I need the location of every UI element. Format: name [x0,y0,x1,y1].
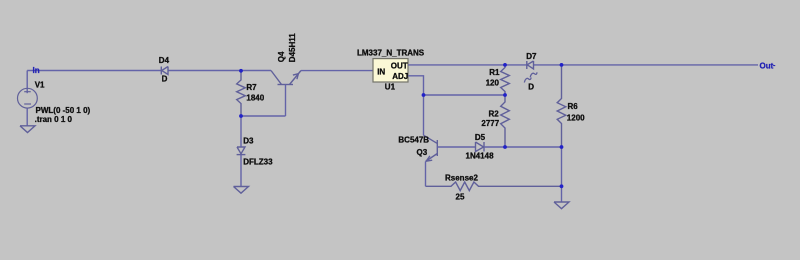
svg-text:PWL(0 -50 1 0): PWL(0 -50 1 0) [36,106,91,115]
svg-text:1N4148: 1N4148 [466,152,495,161]
svg-text:D: D [528,83,534,92]
svg-text:R1: R1 [489,68,500,77]
svg-text:1840: 1840 [246,94,264,103]
svg-text:Out: Out [760,61,774,70]
svg-text:D: D [162,75,168,84]
svg-text:D7: D7 [526,52,537,61]
svg-text:D3: D3 [243,137,254,146]
svg-text:In: In [33,66,40,75]
svg-text:R7: R7 [246,83,257,92]
svg-text:1200: 1200 [567,113,585,122]
svg-text:2777: 2777 [481,119,499,128]
svg-text:OUT: OUT [391,61,408,70]
svg-text:Q4: Q4 [277,51,286,62]
svg-text:25: 25 [456,192,465,201]
svg-text:R6: R6 [568,102,579,111]
svg-text:LM337_N_TRANS: LM337_N_TRANS [357,48,425,57]
svg-text:R2: R2 [489,109,500,118]
svg-text:D45H11: D45H11 [288,33,297,62]
svg-text:D4: D4 [159,56,170,65]
svg-text:DFLZ33: DFLZ33 [243,157,273,166]
svg-text:D5: D5 [475,133,486,142]
svg-text:U1: U1 [385,82,396,91]
svg-text:IN: IN [377,68,385,77]
svg-text:.tran 0 1 0: .tran 0 1 0 [35,115,73,124]
svg-text:ADJ: ADJ [392,72,408,81]
svg-text:Q3: Q3 [417,148,428,157]
svg-text:V1: V1 [35,81,45,90]
svg-text:Rsense2: Rsense2 [445,173,478,182]
svg-text:BC547B: BC547B [398,135,429,144]
svg-text:120: 120 [486,79,500,88]
